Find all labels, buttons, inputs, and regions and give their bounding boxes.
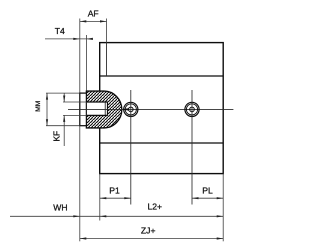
svg-text:L2+: L2+ (148, 202, 163, 212)
thread bore KF (white cutout) (87, 102, 108, 115)
body internal vertical edge (AF flat) (106, 43, 108, 76)
svg-text:ZJ+: ZJ+ (141, 226, 156, 236)
collar flange at rod end (80, 93, 87, 126)
rod-end buffer dome (hatched) (86, 91, 121, 128)
mounting hole 1 (124, 102, 138, 116)
hole 1 vertical centerline (130, 90, 132, 205)
AF extension line right (106, 19, 108, 43)
extension line: body right edge (222, 174, 224, 242)
KF extension line top (63, 101, 87, 103)
extension line: rod face (collar left) (79, 126, 81, 242)
hole 2 vertical centerline (191, 90, 193, 205)
mounting hole 2 (185, 102, 199, 116)
arrow at buffer tip (122, 108, 129, 110)
dimension ZJ+ (80, 238, 223, 240)
svg-text:PL: PL (202, 185, 213, 195)
dimension P1 (100, 197, 131, 199)
MM extension line top (46, 92, 80, 94)
svg-text:WH: WH (53, 202, 67, 212)
body inner edge line upper (100, 75, 224, 77)
AF dimension line (80, 20, 107, 22)
T4 extension line right (85, 35, 87, 91)
svg-text:KF: KF (51, 131, 61, 142)
svg-text:T4: T4 (55, 26, 65, 36)
body inner edge line lower (100, 142, 224, 144)
svg-text:MM: MM (35, 101, 42, 112)
KF extension line bottom (63, 114, 87, 116)
AF extension line left (79, 19, 81, 93)
thread depth line (104, 102, 106, 115)
KF dimension line (63, 94, 65, 103)
svg-text:AF: AF (88, 8, 99, 18)
T4 dimension line (45, 38, 92, 40)
extension line: body left edge (99, 174, 101, 221)
dimension WH (10, 215, 80, 217)
centerline (horizontal axis) (68, 108, 233, 110)
svg-text:P1: P1 (109, 185, 120, 195)
cylinder body outline (100, 43, 224, 174)
MM dimension line (46, 93, 48, 126)
dimension PL (192, 197, 223, 199)
dimension L2+ (80, 215, 223, 217)
MM extension line bottom (46, 125, 80, 127)
